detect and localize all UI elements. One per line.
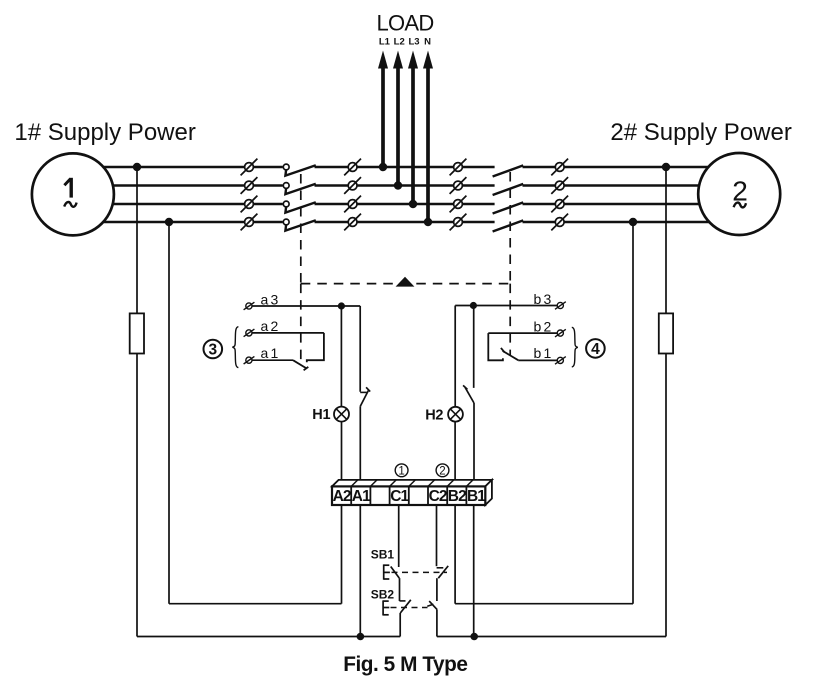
junction N tap right bbox=[629, 218, 637, 226]
disconnect terminal QS2 load-left pole 3 bbox=[348, 200, 357, 209]
contact 1 blade bbox=[360, 390, 368, 406]
svg-text:LOAD: LOAD bbox=[376, 11, 433, 36]
load arrow 4 head bbox=[423, 51, 433, 69]
wire terminal B2 down bbox=[454, 504, 456, 604]
switch K1 mechanical link (dashed) bbox=[300, 174, 302, 284]
wire N neutral bus middle segment bbox=[315, 221, 495, 224]
pushbutton SB1 actuator bbox=[383, 564, 385, 579]
svg-text:H2: H2 bbox=[425, 407, 443, 423]
wire a3 node down to contact 1 bbox=[359, 306, 361, 392]
wire right neutral horizontal bbox=[455, 603, 633, 605]
wire terminal A1 down to bus bbox=[359, 504, 361, 637]
terminal b1 circle bbox=[557, 357, 563, 363]
disconnect terminal QS3 load-right pole 1 bbox=[454, 163, 463, 172]
junction L1 tap right bbox=[662, 163, 670, 171]
wire SB2 right to bottom bus bbox=[436, 610, 438, 637]
wire a3 node to lamp H1 bbox=[340, 306, 342, 407]
wire SB2 left to bottom bus bbox=[399, 613, 401, 637]
wire bottom bus left segment bbox=[137, 636, 400, 638]
switch K1 pole 1 blade bbox=[285, 165, 315, 175]
disconnect terminal QS2 load-left pole 2 bbox=[348, 181, 357, 190]
svg-text:B2: B2 bbox=[448, 488, 466, 505]
svg-text:a2: a2 bbox=[261, 318, 281, 334]
pushbutton SB1 left contact blade bbox=[391, 567, 400, 579]
pushbutton SB2 left contact blade bbox=[400, 600, 411, 613]
wire N neutral bus right segment bbox=[523, 221, 740, 224]
junction a3 node bbox=[338, 302, 345, 309]
label group 3 circled number bbox=[204, 340, 223, 359]
svg-text:4: 4 bbox=[591, 341, 600, 358]
pushbutton SB2 link (dashed) bbox=[391, 607, 428, 609]
wire left neutral column bbox=[168, 222, 170, 604]
load arrow 1 shaft bbox=[381, 60, 385, 167]
mechanical interlock link (dashed horizontal) bbox=[301, 283, 510, 285]
load arrow 4 shaft bbox=[426, 60, 430, 222]
wire bottom bus right segment bbox=[437, 636, 666, 638]
terminal a2 circle bbox=[246, 330, 252, 336]
switch K1 pole 3 pivot bbox=[283, 201, 289, 207]
wire L1 phase bus middle segment bbox=[315, 166, 495, 169]
junction load arrow 3 to L3 phase bbox=[409, 200, 417, 208]
load arrow 3 head bbox=[408, 51, 418, 69]
load arrow 2 head bbox=[393, 51, 403, 69]
switch K2 pole 2 blade bbox=[493, 184, 524, 195]
junction b3 node bbox=[470, 302, 477, 309]
disconnect terminal QS1 left pole 4 bbox=[245, 218, 254, 227]
wire a3 bbox=[252, 305, 360, 307]
svg-text:3: 3 bbox=[208, 342, 217, 359]
wire right neutral column bbox=[632, 222, 634, 604]
wire L2 phase bus middle segment bbox=[315, 184, 495, 187]
contact 2 blade bbox=[465, 388, 474, 403]
label group 4 circled number bbox=[586, 339, 605, 358]
svg-text:1: 1 bbox=[398, 466, 404, 478]
interlock triangle marker bbox=[396, 277, 415, 287]
wire a1 bbox=[252, 359, 293, 361]
disconnect terminal QS1 left pole 2 bbox=[245, 181, 254, 190]
switch K1 pole 2 pivot bbox=[283, 183, 289, 189]
wire a2 seat loop bbox=[307, 333, 324, 362]
wire terminal B1 down to bus bbox=[473, 504, 475, 637]
junction load arrow 4 to N neutral bbox=[424, 218, 432, 226]
contact a1 blade bbox=[293, 360, 307, 368]
wire b3 node down to contact 2 bbox=[473, 306, 475, 388]
pushbutton SB1 right seat tick bbox=[437, 567, 444, 569]
terminal a1 circle bbox=[246, 357, 252, 363]
svg-text:L3: L3 bbox=[408, 36, 419, 47]
interlock link right lower (dashed) bbox=[509, 284, 511, 355]
terminal a3 circle bbox=[246, 303, 252, 309]
pushbutton SB2 left seat tick bbox=[400, 600, 406, 602]
terminal b2 circle bbox=[557, 330, 563, 336]
label group 3 brace bbox=[232, 327, 238, 368]
switch K2 pole 4 blade bbox=[493, 220, 524, 231]
junction B1 bottom bbox=[470, 633, 478, 641]
wire left neutral horizontal bbox=[169, 603, 342, 605]
junction L1 tap left bbox=[133, 163, 141, 171]
pushbutton SB1 right contact blade bbox=[438, 566, 448, 578]
label circled 1 bbox=[395, 464, 408, 477]
svg-text:A1: A1 bbox=[352, 488, 371, 505]
svg-text:A2: A2 bbox=[333, 488, 351, 505]
wire L3 phase bus middle segment bbox=[315, 203, 495, 206]
pushbutton SB2 right seat tick bbox=[427, 604, 433, 606]
wire b2 bbox=[488, 332, 557, 334]
wire L2 phase bus left segment bbox=[73, 184, 283, 187]
svg-text:b2: b2 bbox=[534, 318, 554, 334]
wire contact 1 to terminal A1 bbox=[359, 406, 361, 490]
junction N tap left bbox=[165, 218, 173, 226]
disconnect terminal QS4 right pole 1 bbox=[555, 163, 564, 172]
source G1 circle (1# supply) bbox=[32, 153, 114, 235]
wire right fuse column bbox=[665, 167, 667, 637]
source G2 circle (2# supply) bbox=[698, 153, 780, 235]
pushbutton SB1 link (dashed) bbox=[392, 571, 448, 573]
interlock link left lower (dashed) bbox=[300, 284, 302, 366]
wire b3 node to lamp H2 bbox=[454, 306, 456, 408]
svg-text:C2: C2 bbox=[429, 488, 447, 505]
load arrow 3 shaft bbox=[411, 60, 415, 204]
wire SB1 right to SB2 right bbox=[436, 578, 438, 601]
junction load arrow 1 to L1 phase bbox=[379, 163, 387, 171]
wire L1 phase bus right segment bbox=[523, 166, 740, 169]
wire contact 2 to terminal B1 bbox=[473, 403, 475, 490]
switch K2 mechanical link (dashed) bbox=[509, 172, 511, 284]
wire b2 seat loop bbox=[488, 333, 503, 360]
switch K1 pole 1 pivot bbox=[283, 164, 289, 170]
svg-text:b3: b3 bbox=[534, 291, 554, 307]
svg-text:H1: H1 bbox=[312, 407, 330, 423]
wire a2 bbox=[252, 332, 324, 334]
svg-text:a1: a1 bbox=[261, 345, 281, 361]
wire terminal A2 down bbox=[341, 504, 343, 604]
svg-text:2: 2 bbox=[439, 466, 445, 478]
wire L2 phase bus right segment bbox=[523, 184, 740, 187]
switch K2 pole 1 blade bbox=[493, 165, 524, 176]
contact 1 seat tick bbox=[360, 391, 367, 393]
svg-text:N: N bbox=[424, 36, 431, 47]
switch K2 pole 3 blade bbox=[493, 202, 524, 213]
fuse FU1 bbox=[130, 313, 144, 353]
junction A1 bottom bbox=[357, 633, 365, 641]
svg-text:1# Supply Power: 1# Supply Power bbox=[14, 119, 195, 146]
disconnect terminal QS3 load-right pole 2 bbox=[454, 181, 463, 190]
wire terminal C2 down bbox=[436, 504, 438, 566]
fuse FU2 bbox=[659, 313, 673, 353]
disconnect terminal QS3 load-right pole 4 bbox=[454, 218, 463, 227]
svg-text:SB2: SB2 bbox=[371, 588, 395, 602]
svg-text:L1: L1 bbox=[379, 36, 391, 47]
wire b3 bbox=[455, 305, 557, 307]
wire left fuse column bbox=[136, 167, 138, 637]
label group 4 brace bbox=[572, 327, 578, 367]
wire N neutral bus left segment bbox=[73, 221, 283, 224]
svg-text:SB1: SB1 bbox=[371, 548, 395, 562]
wire L1 phase bus left segment bbox=[73, 166, 283, 169]
lamp H1 bbox=[334, 407, 349, 422]
svg-text:Fig. 5 M Type: Fig. 5 M Type bbox=[343, 653, 467, 676]
lamp H2 bbox=[448, 407, 463, 422]
junction load arrow 2 to L2 phase bbox=[394, 181, 402, 189]
svg-text:b1: b1 bbox=[534, 345, 554, 361]
disconnect terminal QS2 load-left pole 4 bbox=[348, 218, 357, 227]
wire lamp H2 to terminal B2 bbox=[454, 422, 456, 490]
disconnect terminal QS1 left pole 1 bbox=[245, 163, 254, 172]
wire terminal C1 down bbox=[398, 504, 400, 567]
pushbutton SB2 actuator bbox=[382, 600, 384, 615]
terminal block XT bbox=[332, 480, 492, 487]
load arrow 2 shaft bbox=[396, 60, 400, 186]
disconnect terminal QS4 right pole 2 bbox=[555, 181, 564, 190]
wire SB1 left to SB2 left bbox=[399, 578, 401, 601]
svg-text:a3: a3 bbox=[261, 291, 281, 307]
wire L3 phase bus right segment bbox=[523, 203, 740, 206]
terminal b3 circle bbox=[557, 302, 563, 308]
wire lamp H1 to terminal A2 bbox=[341, 422, 343, 490]
disconnect terminal QS4 right pole 4 bbox=[555, 218, 564, 227]
wire b1 bbox=[518, 359, 557, 361]
wire L3 phase bus left segment bbox=[73, 203, 283, 206]
svg-text:C1: C1 bbox=[390, 488, 409, 505]
switch K1 pole 2 blade bbox=[285, 184, 315, 194]
switch K1 pole 4 blade bbox=[285, 220, 315, 230]
svg-text:2# Supply Power: 2# Supply Power bbox=[610, 119, 791, 146]
disconnect terminal QS3 load-right pole 3 bbox=[454, 200, 463, 209]
switch K1 pole 3 blade bbox=[285, 202, 315, 212]
svg-text:B1: B1 bbox=[467, 488, 486, 505]
label circled 2 bbox=[436, 464, 449, 477]
pushbutton SB2 right contact blade bbox=[429, 601, 437, 610]
load arrow 1 head bbox=[378, 51, 388, 69]
switch K1 pole 4 pivot bbox=[283, 219, 289, 225]
svg-text:2: 2 bbox=[732, 175, 748, 206]
disconnect terminal QS1 left pole 3 bbox=[245, 200, 254, 209]
contact b1 blade bbox=[503, 351, 519, 360]
disconnect terminal QS2 load-left pole 1 bbox=[348, 163, 357, 172]
disconnect terminal QS4 right pole 3 bbox=[555, 200, 564, 209]
svg-text:L2: L2 bbox=[394, 36, 405, 47]
